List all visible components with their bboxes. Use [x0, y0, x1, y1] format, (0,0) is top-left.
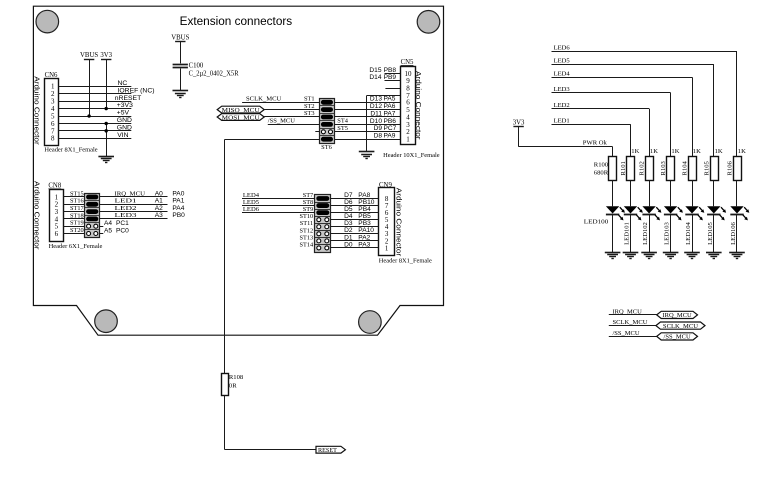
- label ST16: [70, 198, 84, 205]
- svg-text:NC: NC: [118, 80, 128, 87]
- label Arduino Connector (CN6): [33, 76, 42, 145]
- wire: [58, 116, 131, 118]
- svg-text:ST5: ST5: [337, 125, 348, 132]
- junction: [105, 107, 108, 110]
- svg-text:PA9: PA9: [384, 133, 396, 140]
- jumper block ST1-ST6: [320, 99, 335, 144]
- svg-text:LED6: LED6: [554, 45, 571, 52]
- ground: [173, 91, 189, 98]
- label ST11: [300, 220, 313, 227]
- svg-text:MISO_MCU: MISO_MCU: [222, 107, 261, 114]
- pin label nRESET: [115, 95, 141, 102]
- svg-text:Header 8X1_Female: Header 8X1_Female: [44, 146, 97, 153]
- svg-text:MOSI_MCU: MOSI_MCU: [222, 114, 261, 121]
- svg-text:0R: 0R: [229, 383, 237, 390]
- svg-text:PA6: PA6: [384, 103, 396, 110]
- label D12 PA6: [370, 103, 396, 110]
- pin label +3V3: [117, 102, 133, 109]
- pin label GND: [117, 124, 132, 131]
- svg-text:PB9: PB9: [384, 74, 397, 81]
- ground: [641, 253, 657, 259]
- label ST3: [304, 110, 315, 117]
- label D8 PA9: [374, 133, 396, 140]
- wire: [242, 212, 315, 214]
- junction: [87, 114, 90, 117]
- svg-text:PB6: PB6: [384, 118, 397, 125]
- pin label VIN: [117, 132, 128, 139]
- pin label A2 PA4: [155, 205, 185, 212]
- wire: [609, 336, 657, 338]
- svg-text:C_2µ2_0402_X5R: C_2µ2_0402_X5R: [189, 70, 239, 77]
- svg-text:PA4: PA4: [172, 205, 184, 212]
- LED LED106: [730, 180, 749, 252]
- net label LED2: [115, 205, 137, 212]
- label ST12: [300, 227, 314, 234]
- svg-text:LED2: LED2: [115, 205, 137, 212]
- power symbol VBUS (C100): [171, 34, 189, 41]
- svg-text:PB3: PB3: [358, 220, 371, 227]
- svg-text:D14: D14: [369, 74, 381, 81]
- connector CN9: [379, 182, 395, 256]
- net label PWR Ok: [583, 139, 608, 146]
- net label /SS_MCU: [613, 330, 640, 337]
- label D10 PB6: [370, 118, 396, 125]
- svg-text:PWR Ok: PWR Ok: [583, 139, 608, 146]
- svg-text:LED105: LED105: [707, 221, 714, 244]
- svg-text:LED1: LED1: [554, 118, 570, 125]
- wire: [106, 59, 108, 108]
- svg-text:3V3: 3V3: [100, 52, 112, 59]
- svg-text:D5: D5: [344, 206, 353, 213]
- wire: [58, 123, 131, 125]
- wire A4 stub: [100, 226, 104, 228]
- wire: [385, 80, 401, 82]
- resistor R104: [682, 148, 702, 181]
- wire: [58, 101, 131, 103]
- svg-text:LED104: LED104: [685, 221, 692, 244]
- svg-text:LED3: LED3: [115, 212, 138, 219]
- svg-text:ST20: ST20: [70, 227, 84, 234]
- svg-text:+3V3: +3V3: [117, 102, 133, 109]
- svg-text:1K: 1K: [738, 148, 746, 155]
- label Arduino Connector (CN8): [33, 181, 42, 250]
- svg-text:1K: 1K: [693, 148, 701, 155]
- svg-text:R108: R108: [229, 374, 244, 381]
- net label LED4: [554, 71, 571, 78]
- svg-text:D4: D4: [344, 213, 353, 220]
- power symbol VBUS (CN6): [80, 52, 98, 59]
- label ST4: [337, 118, 348, 125]
- svg-text:RESET: RESET: [318, 447, 337, 454]
- svg-text:/SS_MCU: /SS_MCU: [268, 117, 295, 124]
- label ST7: [303, 192, 314, 199]
- ground: [706, 253, 722, 259]
- net flag MISO_MCU: [217, 106, 264, 114]
- wire: [58, 108, 131, 110]
- wire: [331, 212, 379, 214]
- wire A5 stub: [100, 233, 104, 235]
- svg-text:PC7: PC7: [384, 125, 397, 132]
- label ST18: [70, 212, 84, 219]
- wire: [63, 226, 84, 228]
- svg-text:Arduino Connector: Arduino Connector: [394, 188, 403, 257]
- svg-text:1K: 1K: [650, 148, 658, 155]
- label D4 PB5: [344, 213, 371, 220]
- svg-text:R106: R106: [727, 160, 734, 175]
- junction: [105, 122, 108, 125]
- svg-text:ST19: ST19: [70, 220, 84, 227]
- wire: [334, 109, 400, 111]
- label D14 PB9: [369, 74, 396, 81]
- svg-text:PB0: PB0: [172, 212, 185, 219]
- label ST15: [70, 190, 84, 197]
- svg-text:PA8: PA8: [358, 192, 370, 199]
- svg-text:R105: R105: [703, 160, 710, 175]
- label Header 10X1_Female (CN5): [383, 152, 440, 159]
- net label LED3: [115, 212, 138, 219]
- label D3 PB3: [344, 220, 371, 227]
- resistor R103: [660, 148, 680, 181]
- wire: [100, 211, 168, 213]
- wire: [180, 42, 182, 64]
- ground: [98, 157, 114, 163]
- wire: [63, 211, 84, 213]
- svg-text:D1: D1: [344, 234, 353, 241]
- wire: [106, 123, 108, 156]
- net label LED1: [554, 118, 570, 125]
- resistor R108: [222, 374, 244, 396]
- svg-text:SCLK_MCU: SCLK_MCU: [246, 95, 282, 102]
- svg-text:VIN: VIN: [117, 132, 128, 139]
- pin label A4 PC1: [104, 220, 129, 227]
- resistor R105: [703, 148, 723, 181]
- svg-text:A3: A3: [155, 212, 163, 219]
- svg-text:CN5: CN5: [401, 59, 414, 66]
- svg-text:ST6: ST6: [321, 144, 332, 151]
- svg-text:1K: 1K: [671, 148, 679, 155]
- wire: [89, 59, 91, 116]
- connector CN6: [45, 72, 59, 146]
- svg-text:D11: D11: [370, 110, 382, 117]
- net flag RESET: [316, 446, 345, 454]
- label ST20: [70, 227, 84, 234]
- mounting hole H1: [36, 10, 59, 33]
- svg-text:D9: D9: [374, 125, 383, 132]
- svg-text:PB8: PB8: [384, 67, 397, 74]
- pin label +5V: [117, 110, 130, 117]
- svg-text:D15: D15: [369, 67, 381, 74]
- wire: [224, 139, 226, 373]
- label ST19: [70, 220, 84, 227]
- wire: [552, 109, 650, 157]
- label D9 PC7: [374, 125, 397, 132]
- svg-text:Extension connectors: Extension connectors: [180, 14, 293, 28]
- svg-text:Header 8X1_Female: Header 8X1_Female: [379, 258, 432, 265]
- svg-text:IRQ_MCU: IRQ_MCU: [662, 312, 692, 319]
- capacitor C100: [173, 62, 239, 77]
- jumper block ST7-ST14: [315, 195, 331, 253]
- net label LED3: [554, 86, 571, 93]
- wire: [63, 233, 84, 235]
- ground: [605, 253, 621, 259]
- svg-text:PA2: PA2: [358, 234, 370, 241]
- svg-text:+5V: +5V: [117, 110, 130, 117]
- label ST17: [70, 205, 84, 212]
- svg-text:GND: GND: [117, 124, 132, 131]
- svg-text:R103: R103: [660, 160, 667, 175]
- net label SCLK_MCU: [246, 95, 282, 102]
- label D13 PA5: [370, 96, 396, 103]
- svg-text:D7: D7: [344, 192, 353, 199]
- LED LED105: [707, 180, 726, 252]
- net label IRQ_MCU: [115, 190, 146, 197]
- wire: [242, 205, 315, 207]
- svg-text:PA0: PA0: [172, 190, 184, 197]
- svg-text:SCLK_MCU: SCLK_MCU: [663, 323, 698, 330]
- svg-text:GND: GND: [117, 117, 132, 124]
- wire: [331, 240, 379, 242]
- resistor R102: [639, 148, 659, 181]
- svg-text:A1: A1: [155, 198, 163, 205]
- net label /SS_MCU: [268, 117, 295, 124]
- svg-text:A0: A0: [155, 190, 163, 197]
- pin label GND: [117, 117, 132, 124]
- label D0 PA3: [344, 241, 370, 248]
- svg-text:R102: R102: [639, 161, 646, 175]
- svg-text:PB10: PB10: [358, 199, 374, 206]
- svg-text:Header 10X1_Female: Header 10X1_Female: [383, 152, 440, 159]
- wire: [609, 325, 656, 327]
- label ST2: [304, 103, 315, 110]
- svg-text:D6: D6: [344, 199, 353, 206]
- ground: [359, 152, 375, 159]
- wire: [331, 198, 379, 200]
- wire: [552, 77, 693, 156]
- pin label IOREF (NC): [118, 87, 155, 94]
- svg-text:PB4: PB4: [358, 206, 371, 213]
- svg-text:D8: D8: [374, 133, 383, 140]
- label D7 PA8: [344, 192, 370, 199]
- resistor R106: [727, 148, 747, 181]
- svg-text:ST18: ST18: [70, 212, 84, 219]
- svg-text:/SS_MCU: /SS_MCU: [664, 334, 692, 341]
- svg-text:LED4: LED4: [554, 71, 571, 78]
- wire: [552, 51, 738, 156]
- label ST6: [321, 144, 332, 151]
- svg-text:ST7: ST7: [303, 192, 314, 199]
- mounting hole H3: [95, 310, 118, 333]
- svg-text:CN8: CN8: [48, 183, 61, 190]
- wire: [519, 127, 613, 157]
- svg-text:6: 6: [55, 230, 59, 238]
- svg-text:R104: R104: [682, 160, 689, 175]
- pin label A3 PB0: [155, 212, 185, 219]
- connector CN8: [48, 183, 63, 242]
- net label LED5: [243, 199, 260, 206]
- power symbol 3V3 (LED): [513, 119, 525, 126]
- svg-text:A5: A5: [104, 228, 112, 235]
- svg-text:1: 1: [385, 244, 389, 252]
- svg-text:LED2: LED2: [554, 102, 570, 109]
- wire: [63, 218, 84, 220]
- title text: [180, 14, 293, 28]
- wire: [58, 130, 131, 132]
- svg-text:ST2: ST2: [304, 103, 315, 110]
- net flag /SS_MCU: [657, 333, 698, 341]
- svg-text:D10: D10: [370, 118, 382, 125]
- net label LED1: [115, 198, 137, 205]
- svg-text:VBUS: VBUS: [80, 52, 98, 59]
- wire: [334, 124, 400, 126]
- svg-text:LED103: LED103: [664, 221, 671, 244]
- wire: [385, 73, 401, 75]
- label D15 PB8: [369, 67, 396, 74]
- svg-text:PC1: PC1: [116, 220, 129, 227]
- svg-text:LED101: LED101: [624, 222, 631, 245]
- svg-text:ST16: ST16: [70, 198, 84, 205]
- svg-text:SCLK_MCU: SCLK_MCU: [613, 319, 648, 326]
- svg-text:PA5: PA5: [384, 96, 396, 103]
- net label LED6: [243, 206, 260, 213]
- wire pin8 stub: [385, 88, 400, 90]
- resistor R101: [620, 148, 640, 181]
- wire: [552, 93, 671, 157]
- svg-text:D13: D13: [370, 96, 382, 103]
- wire: [242, 198, 315, 200]
- wire: [334, 116, 400, 118]
- wire: [331, 226, 379, 228]
- svg-text:PA1: PA1: [172, 198, 184, 205]
- wire: [334, 131, 400, 133]
- wire: [331, 219, 379, 221]
- label Arduino Connector (CN5): [414, 71, 423, 140]
- label Arduino Connector (CN9): [394, 188, 403, 257]
- LED LED104: [685, 180, 704, 252]
- label Header 8X1_Female (CN6): [44, 146, 97, 153]
- svg-text:LED1: LED1: [115, 198, 137, 205]
- mounting hole H4: [359, 311, 382, 334]
- resistor R100: [594, 157, 617, 181]
- label ST9: [303, 206, 314, 213]
- svg-text:PA7: PA7: [384, 110, 396, 117]
- svg-text:D2: D2: [344, 227, 353, 234]
- wire pin7 GND: [367, 95, 401, 151]
- net flag IRQ_MCU: [657, 311, 698, 319]
- ground: [623, 253, 639, 259]
- wire: [334, 102, 400, 104]
- svg-text:R100: R100: [594, 162, 609, 169]
- svg-text:LED100: LED100: [584, 219, 609, 226]
- svg-text:LED4: LED4: [243, 192, 260, 199]
- svg-text:D0: D0: [344, 241, 353, 248]
- wire: [331, 205, 379, 207]
- jumper block ST15-ST20: [85, 194, 100, 238]
- ground: [729, 253, 745, 259]
- net flag MOSI_MCU: [217, 114, 264, 122]
- wire: [100, 196, 168, 198]
- connector CN5: [401, 59, 416, 145]
- svg-text:Header 6X1_Female: Header 6X1_Female: [49, 243, 103, 250]
- power symbol 3V3 (CN6): [100, 52, 112, 59]
- wire: [552, 124, 631, 156]
- LED LED101: [624, 180, 643, 252]
- svg-text:VBUS: VBUS: [171, 34, 189, 41]
- wire: [264, 116, 319, 118]
- svg-text:A2: A2: [155, 205, 163, 212]
- label ST1: [304, 96, 315, 103]
- svg-text:LED6: LED6: [243, 206, 260, 213]
- wire: [331, 247, 379, 249]
- svg-text:1: 1: [406, 136, 410, 144]
- wire: [58, 138, 131, 140]
- wire: [225, 139, 320, 141]
- svg-text:PA3: PA3: [358, 241, 370, 248]
- wire: [268, 124, 320, 126]
- svg-text:LED5: LED5: [554, 58, 571, 65]
- wire: [242, 102, 319, 104]
- net label LED4: [243, 192, 260, 199]
- wire: [58, 86, 131, 88]
- svg-text:1K: 1K: [715, 148, 723, 155]
- pin label A1 PA1: [155, 198, 185, 205]
- svg-text:PA10: PA10: [358, 227, 374, 234]
- wire: [609, 314, 657, 316]
- svg-text:LED5: LED5: [243, 199, 260, 206]
- net label SCLK_MCU: [613, 319, 648, 326]
- svg-text:A4: A4: [104, 220, 112, 227]
- svg-text:IRQ_MCU: IRQ_MCU: [115, 190, 146, 197]
- pin label A5 PC0: [104, 228, 129, 235]
- svg-text:3V3: 3V3: [513, 119, 525, 126]
- wire: [334, 139, 400, 141]
- svg-text:ST12: ST12: [300, 227, 314, 234]
- svg-text:PC0: PC0: [116, 228, 129, 235]
- wire: [552, 64, 714, 156]
- ground: [684, 253, 700, 259]
- svg-text:PB5: PB5: [358, 213, 371, 220]
- svg-text:ST14: ST14: [300, 241, 314, 248]
- wire ST5 stub: [315, 131, 319, 133]
- label D2 PA10: [344, 227, 374, 234]
- svg-text:ST1: ST1: [304, 96, 315, 103]
- wire: [63, 196, 84, 198]
- net flag SCLK_MCU: [656, 322, 705, 330]
- net label LED5: [554, 58, 571, 65]
- ground: [663, 253, 679, 259]
- svg-text:Arduino Connector: Arduino Connector: [33, 181, 42, 250]
- svg-text:1K: 1K: [631, 148, 639, 155]
- wire: [58, 93, 131, 95]
- svg-text:ST10: ST10: [300, 213, 314, 220]
- wire: [331, 233, 379, 235]
- wire: [100, 218, 168, 220]
- label D6 PB10: [344, 199, 375, 206]
- junction: [105, 129, 108, 132]
- svg-text:Arduino Connector: Arduino Connector: [33, 76, 42, 145]
- wire: [264, 109, 319, 111]
- label ST14: [300, 241, 314, 248]
- net label LED2: [554, 102, 570, 109]
- svg-text:C100: C100: [189, 62, 204, 69]
- mounting hole H2: [417, 10, 440, 33]
- label D11 PA7: [370, 110, 395, 117]
- label D5 PB4: [344, 206, 371, 213]
- pin label NC: [118, 80, 128, 87]
- label ST8: [303, 199, 314, 206]
- label ST10: [300, 213, 314, 220]
- svg-text:Arduino Connector: Arduino Connector: [414, 71, 423, 140]
- LED LED103: [664, 180, 683, 252]
